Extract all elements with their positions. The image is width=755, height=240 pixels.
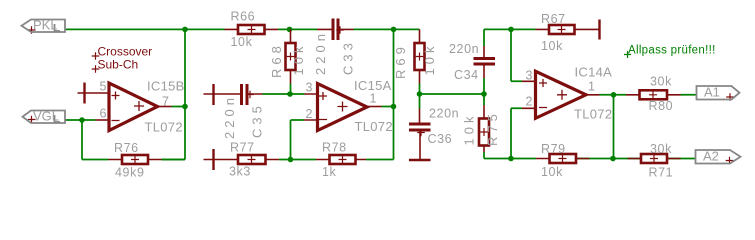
svg-text:IC15B: IC15B [147, 79, 185, 94]
svg-text:C34: C34 [454, 68, 479, 82]
svg-text:3: 3 [526, 69, 533, 83]
svg-text:R71: R71 [649, 166, 674, 180]
svg-text:A1: A1 [704, 85, 720, 100]
svg-text:TL072: TL072 [574, 107, 612, 122]
svg-text:10k: 10k [541, 165, 563, 179]
svg-text:3: 3 [306, 81, 313, 95]
svg-text:3k3: 3k3 [229, 165, 251, 179]
svg-text:R80: R80 [649, 99, 674, 113]
svg-text:R67: R67 [541, 12, 566, 26]
svg-text:R77: R77 [230, 141, 255, 155]
svg-text:2: 2 [306, 107, 313, 121]
svg-text:2: 2 [526, 95, 533, 109]
svg-text:R79: R79 [541, 142, 566, 156]
svg-text:6: 6 [100, 107, 107, 121]
svg-text:10k: 10k [541, 39, 563, 53]
svg-text:Sub-Ch: Sub-Ch [98, 58, 139, 72]
svg-text:220n: 220n [313, 30, 328, 75]
svg-text:C33: C33 [341, 39, 356, 75]
svg-text:IC14A: IC14A [575, 65, 613, 80]
svg-text:1: 1 [370, 92, 377, 106]
svg-text:1: 1 [588, 79, 595, 93]
svg-text:VGL: VGL [33, 109, 59, 124]
svg-text:10k: 10k [231, 35, 253, 49]
svg-text:Allpass prüfen!!!: Allpass prüfen!!! [628, 45, 716, 57]
svg-text:C35: C35 [250, 102, 265, 138]
svg-text:30k: 30k [650, 142, 672, 156]
svg-text:R69: R69 [393, 43, 408, 79]
svg-text:PKL: PKL [33, 18, 58, 33]
svg-text:30k: 30k [650, 75, 672, 89]
svg-text:C36: C36 [428, 132, 453, 146]
svg-text:R78: R78 [322, 141, 347, 155]
svg-text:49k9: 49k9 [115, 166, 145, 180]
svg-text:R66: R66 [231, 10, 256, 24]
svg-text:R75: R75 [485, 110, 500, 146]
svg-text:220n: 220n [429, 107, 459, 121]
svg-text:7: 7 [162, 95, 169, 109]
svg-text:220n: 220n [449, 42, 479, 56]
svg-text:R68: R68 [269, 42, 284, 78]
svg-text:R76: R76 [114, 141, 139, 155]
svg-text:5: 5 [100, 80, 107, 94]
svg-text:220n: 220n [222, 94, 237, 139]
svg-text:Crossover: Crossover [98, 45, 153, 59]
svg-text:10k: 10k [291, 43, 306, 76]
svg-text:TL072: TL072 [355, 119, 393, 134]
svg-text:A2: A2 [703, 149, 719, 164]
svg-text:1k: 1k [322, 165, 337, 179]
svg-text:10k: 10k [462, 113, 477, 146]
svg-text:10k: 10k [422, 43, 437, 76]
svg-text:TL072: TL072 [145, 120, 183, 135]
